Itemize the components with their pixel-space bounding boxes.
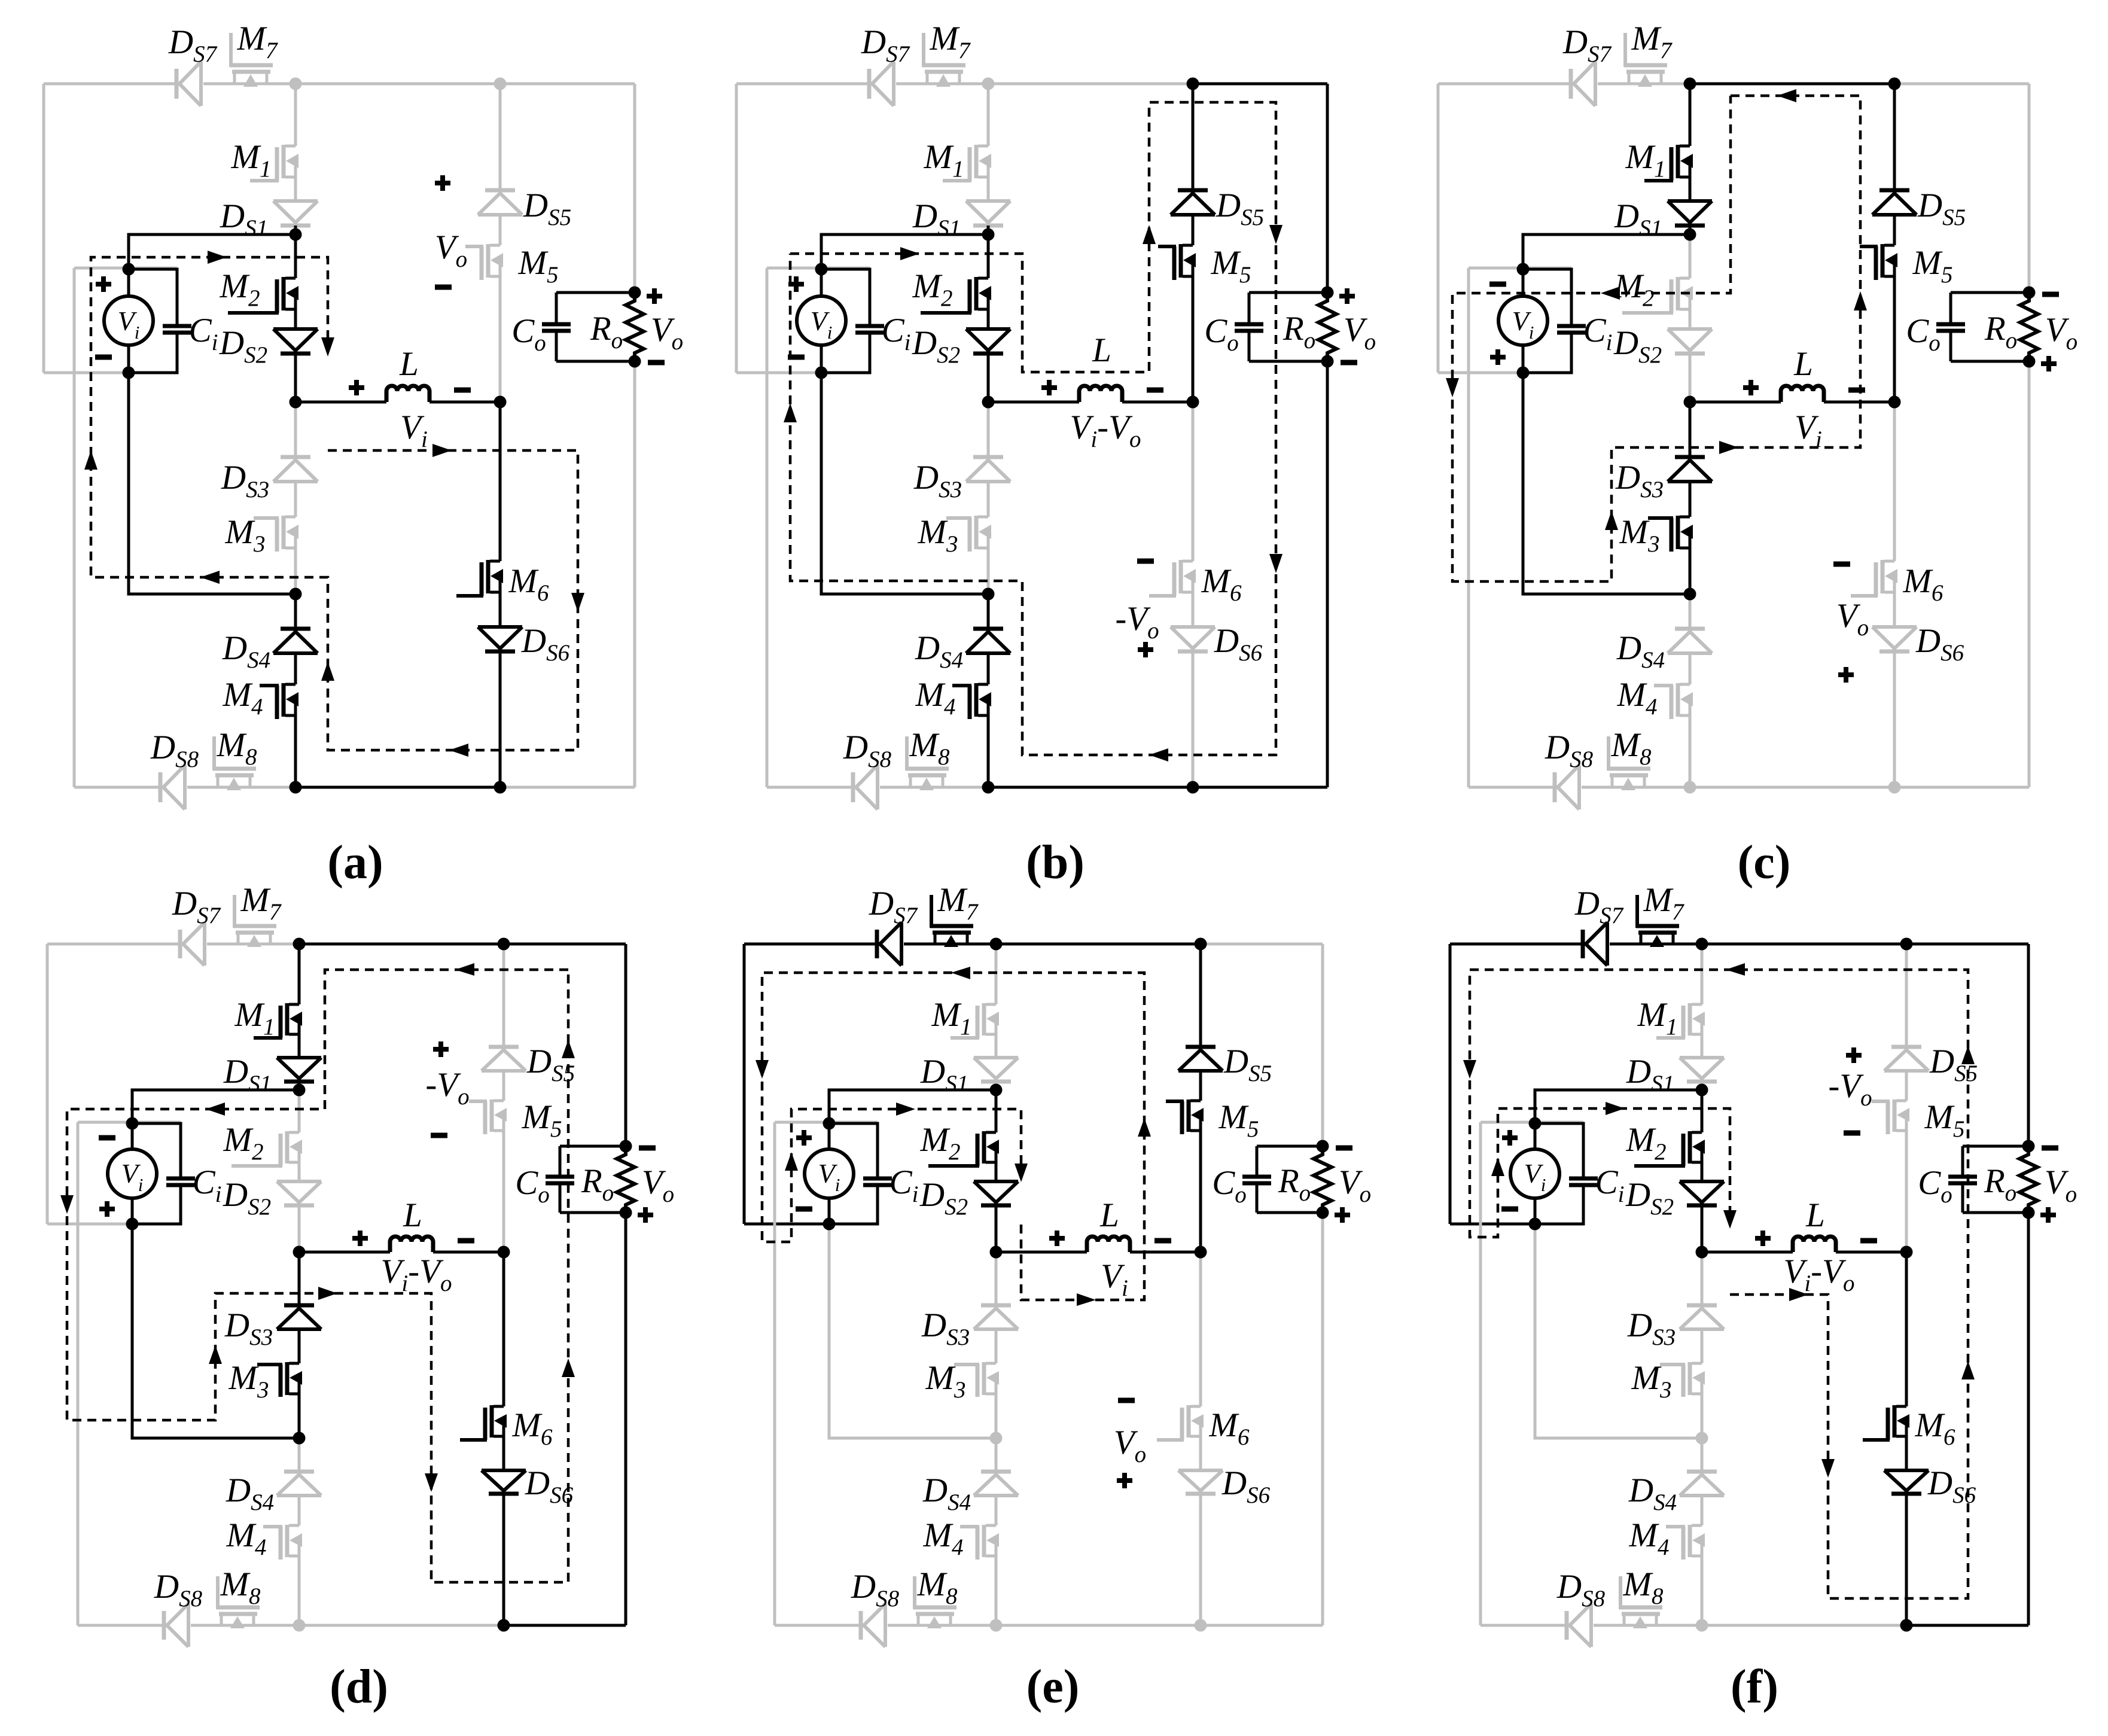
wire M5 to inductor node (c): [1893, 275, 1896, 402]
wire bottom rail left (a): [74, 786, 296, 789]
sign output bottom (b): [1341, 360, 1357, 366]
capacitor Co (e): [1242, 1146, 1271, 1213]
transistor M4 (f): [1666, 1525, 1705, 1560]
transistor M3 (d): [257, 1362, 302, 1397]
wire top rail right (f): [1906, 943, 2028, 946]
node indR (e): [1195, 1246, 1207, 1259]
label DS1 (b): [912, 197, 961, 241]
voltage source Vi (b): [797, 269, 846, 373]
wire M2 to DS2 (e): [995, 1161, 998, 1181]
wire top rail right (a): [500, 83, 635, 86]
sign Vi bottom (d): [99, 1201, 115, 1217]
transistor M4 (a): [260, 683, 298, 719]
svg-text:L: L: [403, 1196, 422, 1234]
label DS3 (a): [221, 459, 269, 502]
wire M4 to bottom rail (a): [294, 714, 297, 787]
diode DS8 (b): [853, 765, 878, 809]
label Co (e): [1212, 1164, 1247, 1208]
wire output bottom (c): [1951, 360, 2029, 363]
capacitor Co (b): [1235, 293, 1263, 361]
wire bottom rail middle (d): [299, 1624, 504, 1627]
label M4 (e): [923, 1516, 964, 1560]
transistor M8 (f): [1619, 1576, 1662, 1628]
wire chain top (f): [1701, 944, 1704, 1004]
wire top rail to DS5 (e): [1199, 944, 1202, 1047]
label DS2 (c): [1613, 324, 1662, 368]
wire DS3 to M3 (a): [294, 482, 297, 517]
wire DS2 to inductor node (e): [995, 1205, 998, 1252]
label DS4 (a): [222, 629, 270, 673]
wire bottom rail middle (e): [996, 1624, 1201, 1627]
wire top rail to DS5 (d): [502, 944, 505, 1047]
wire DS4 to M4 (d): [298, 1496, 301, 1525]
node outT (e): [1317, 1140, 1329, 1153]
label DS4 (c): [1616, 629, 1665, 673]
wire DS6 to bottom rail (a): [499, 651, 502, 787]
wire right rail lower (b): [1326, 361, 1329, 787]
wire M5 to inductor node (b): [1192, 275, 1195, 402]
diode DS6 (c): [1872, 627, 1917, 651]
node bot494 (d): [293, 1619, 306, 1632]
label M3 (a): [225, 513, 266, 557]
label branch voltage (d): [425, 1066, 469, 1110]
label inductor voltage (a): [400, 409, 428, 452]
dashed current loop (b): [784, 102, 1283, 762]
wire Vi- to node B (d): [132, 1224, 299, 1438]
transistor M8 (b): [906, 736, 949, 790]
wire top rail middle (d): [299, 943, 504, 946]
sign output bottom (d): [638, 1207, 653, 1223]
label M1 (a): [231, 138, 272, 182]
sign output top (f): [2042, 1146, 2058, 1151]
node indL (b): [982, 396, 995, 409]
label M5 (e): [1219, 1098, 1259, 1142]
capacitor Co (a): [542, 293, 571, 361]
label M6 (c): [1903, 562, 1943, 606]
resistor Ro (d): [617, 1146, 635, 1213]
label M3 (f): [1631, 1359, 1672, 1403]
wire DS1 to node A (d): [298, 1082, 301, 1090]
node top836 (d): [498, 938, 510, 951]
wire node A to M2 (f): [1701, 1090, 1704, 1132]
sign output top (c): [2042, 292, 2059, 297]
label DS2 (b): [912, 324, 960, 368]
wire DS5 to M5 (b): [1192, 215, 1195, 245]
diode DS3 (a): [273, 457, 318, 482]
diode DS8 (c): [1555, 765, 1579, 809]
wire output bottom (a): [556, 360, 635, 363]
label inductor voltage (f): [1784, 1253, 1855, 1296]
wire node A to Vi+ (f): [1535, 1090, 1702, 1123]
wire bottom rail left (f): [1481, 1624, 1702, 1627]
wire top rail middle (c): [1690, 83, 1894, 86]
wire DS4 to M4 (e): [995, 1496, 998, 1525]
label DS5 (d): [526, 1043, 575, 1086]
diode DS1 (f): [1680, 1058, 1724, 1082]
diode DS1 (e): [974, 1058, 1018, 1082]
transistor M8 (d): [217, 1576, 260, 1628]
diode DS2 (f): [1680, 1181, 1724, 1205]
inductor L (e): [996, 1236, 1201, 1252]
transistor M1 (f): [1656, 1003, 1705, 1038]
label DS1 (d): [223, 1053, 272, 1097]
diode DS6 (d): [482, 1470, 526, 1494]
diode DS8 (a): [160, 765, 185, 809]
wire inductor node to M6 (a): [499, 402, 502, 561]
diode DS7 (a): [176, 62, 201, 106]
dashed current loop (e): [756, 967, 1151, 1306]
label DS2 (e): [919, 1176, 968, 1220]
wire M5 to inductor node (a): [499, 275, 502, 402]
svg-text:(d): (d): [330, 1661, 388, 1713]
wire DS6 to bottom rail (c): [1893, 651, 1896, 787]
node top836 (b): [1187, 78, 1199, 90]
diode DS2 (d): [277, 1181, 321, 1205]
label DS2 (d): [223, 1176, 271, 1220]
node outT (a): [629, 287, 641, 299]
node 392 (c): [1684, 229, 1696, 241]
transistor M1 (b): [943, 145, 991, 181]
wire node A to Vi+ (b): [821, 234, 988, 269]
wire right rail upper (d): [625, 944, 627, 1146]
label Ro (d): [581, 1162, 614, 1206]
wire gray jog horizontal (a): [74, 267, 177, 270]
wire output top (e): [1257, 1145, 1323, 1148]
wire bottom rail middle (b): [988, 786, 1193, 789]
label M4 (b): [915, 676, 956, 720]
label M6 (f): [1915, 1406, 1955, 1450]
transistor M7 (e): [930, 895, 973, 947]
label Co (a): [511, 312, 546, 356]
transistor M2 (f): [1634, 1131, 1705, 1166]
wire M6 to DS6 (e): [1199, 1435, 1202, 1470]
svg-text:(e): (e): [1026, 1661, 1080, 1713]
sign branch minus (a): [435, 285, 452, 290]
transistor M4 (c): [1654, 683, 1693, 719]
label Ro (a): [590, 310, 623, 354]
node viP (e): [823, 1117, 836, 1130]
transistor M1 (d): [254, 1003, 302, 1038]
wire DS1 to node A (a): [294, 226, 297, 234]
wire DS4 to M4 (a): [294, 653, 297, 684]
wire Vi- to node B (c): [1523, 373, 1690, 594]
wire DS3 to M3 (e): [995, 1329, 998, 1363]
label branch voltage (c): [1836, 597, 1869, 641]
capacitor Ci (e): [829, 1123, 892, 1224]
label Vo output (c): [2045, 311, 2077, 355]
wire DS6 to bottom rail (e): [1199, 1494, 1202, 1625]
node bot836 (a): [494, 781, 507, 794]
label inductor voltage (d): [381, 1253, 452, 1296]
diode DS6 (f): [1884, 1470, 1929, 1494]
wire DS5 to M5 (d): [502, 1071, 505, 1101]
wire top rail middle (f): [1702, 943, 1906, 946]
wire right rail lower (a): [633, 361, 636, 787]
wire M6 to DS6 (a): [499, 591, 502, 627]
label Co (d): [515, 1164, 550, 1208]
wire left frame (f): [1449, 944, 1452, 1224]
wire DS2 to inductor node (c): [1689, 354, 1692, 402]
label DS8 (a): [150, 729, 199, 772]
label DS8 (b): [843, 729, 892, 772]
wire inductor node to DS3 (a): [294, 402, 297, 457]
wire bottom rail right (e): [1201, 1624, 1323, 1627]
wire M1 to DS1 (b): [987, 176, 990, 201]
wire node A to Vi+ (e): [829, 1090, 996, 1123]
wire M1 to DS1 (e): [995, 1033, 998, 1058]
node top836 (a): [494, 78, 507, 90]
wire DS6 to bottom rail (d): [502, 1494, 505, 1625]
wire top rail to DS5 (a): [499, 84, 502, 190]
sign Vi top (f): [1502, 1130, 1518, 1146]
wire bottom rail left (e): [775, 1624, 996, 1627]
sign Vi top (b): [788, 276, 804, 292]
label M1 (c): [1625, 138, 1666, 182]
wire top rail middle (b): [988, 83, 1193, 86]
label DS5 (c): [1917, 187, 1966, 230]
wire DS3 to M3 (c): [1689, 482, 1692, 517]
diode DS7 (d): [180, 922, 205, 966]
node top494 (c): [1684, 78, 1696, 90]
label Vo output (e): [1339, 1164, 1371, 1207]
transistor M6 (e): [1157, 1405, 1204, 1440]
label DS3 (f): [1627, 1306, 1676, 1350]
transistor M5 (a): [465, 244, 503, 280]
wire Vi- to node B (f): [1535, 1224, 1702, 1438]
wire M4 to bottom rail (e): [995, 1555, 998, 1625]
wire left frame (d): [46, 944, 49, 1224]
wire DS3 to M3 (f): [1701, 1329, 1704, 1363]
sign Vi bottom (c): [1490, 349, 1506, 365]
diode DS1 (a): [273, 201, 318, 226]
label DS7 (d): [172, 885, 221, 928]
sign inductor plus (f): [1755, 1231, 1771, 1246]
transistor M8 (e): [913, 1576, 956, 1628]
node outT (c): [2023, 287, 2036, 299]
sign branch plus (c): [1838, 667, 1854, 683]
node bot836 (e): [1195, 1619, 1207, 1632]
node top836 (c): [1888, 78, 1901, 90]
node bot494 (f): [1696, 1619, 1708, 1632]
label branch voltage (b): [1115, 600, 1159, 644]
diode DS3 (b): [966, 457, 1010, 482]
node outB (a): [629, 355, 641, 368]
sign branch minus (b): [1137, 559, 1154, 564]
svg-text:L: L: [399, 345, 419, 383]
label M6 (b): [1201, 562, 1242, 606]
wire inductor node to M6 (c): [1893, 402, 1896, 561]
sign branch minus (d): [431, 1133, 447, 1138]
wire top rail left segment (b): [736, 83, 988, 86]
diode DS7 (b): [869, 62, 894, 106]
capacitor Ci (d): [132, 1123, 195, 1224]
wire M6 to DS6 (f): [1905, 1435, 1908, 1470]
wire right rail upper (a): [633, 84, 636, 293]
wire M6 to DS6 (b): [1192, 591, 1195, 627]
wire M2 to DS2 (a): [294, 308, 297, 329]
label L (d): [403, 1196, 422, 1234]
wire frame to Vi- (b): [736, 371, 821, 374]
label M1 (b): [924, 138, 964, 182]
capacitor Ci (a): [129, 269, 191, 373]
node viP (d): [126, 1117, 139, 1130]
wire right rail lower (e): [1321, 1213, 1324, 1625]
label DS3 (b): [913, 459, 962, 502]
wire M4 to bottom rail (c): [1689, 714, 1692, 787]
sign branch plus (a): [435, 175, 450, 191]
sign output bottom (c): [2041, 356, 2057, 371]
label M5 (d): [522, 1098, 562, 1142]
wire DS1 to node A (b): [987, 226, 990, 234]
capacitor Co (f): [1948, 1146, 1977, 1213]
label DS6 (a): [521, 622, 570, 666]
wire frame to Vi- (f): [1450, 1223, 1535, 1226]
transistor M2 (c): [1622, 277, 1693, 313]
wire DS2 to inductor node (a): [294, 354, 297, 402]
inductor L (d): [299, 1236, 504, 1252]
label Vo output (d): [642, 1164, 674, 1207]
wire gray jog horizontal (d): [78, 1121, 181, 1124]
wire frame to Vi- (c): [1438, 371, 1523, 374]
wire node B to DS4 (a): [294, 594, 297, 629]
wire output bottom (f): [1963, 1211, 2028, 1214]
sign inductor minus (c): [1848, 388, 1865, 393]
wire right rail upper (c): [2028, 84, 2031, 293]
label DS6 (d): [525, 1464, 574, 1508]
label M4 (c): [1617, 676, 1658, 720]
label DS7 (c): [1562, 23, 1612, 67]
transistor M5 (d): [469, 1100, 507, 1134]
label DS5 (f): [1929, 1043, 1978, 1086]
sign Vi top (c): [1489, 282, 1506, 287]
panel label (e): [1026, 1661, 1080, 1713]
label M2 (e): [920, 1121, 961, 1165]
svg-text:L: L: [1793, 345, 1813, 383]
node 993 (c): [1684, 588, 1696, 601]
label M7 (b): [930, 20, 971, 63]
node 392 (d): [293, 1084, 306, 1097]
wire left frame (c): [1437, 84, 1440, 373]
wire M3 to node B (f): [1701, 1393, 1704, 1438]
node top494 (b): [982, 78, 995, 90]
wire top rail left segment (a): [44, 83, 296, 86]
label M6 (e): [1209, 1406, 1250, 1450]
wire M3 to node B (e): [995, 1393, 998, 1438]
transistor M5 (e): [1166, 1100, 1204, 1134]
node indR (c): [1888, 396, 1901, 409]
label M4 (d): [226, 1516, 267, 1560]
wire M6 to DS6 (c): [1893, 591, 1896, 627]
dashed current loop (d): [60, 963, 575, 1582]
wire inductor node to DS3 (e): [995, 1252, 998, 1305]
wire gray jog vertical (e): [773, 1122, 776, 1625]
label Ci (e): [889, 1164, 919, 1207]
node 993 (d): [293, 1432, 306, 1445]
wire DS5 to M5 (a): [499, 215, 502, 245]
wire inductor node to M6 (f): [1905, 1252, 1908, 1406]
wire output bottom (b): [1249, 360, 1327, 363]
transistor M8 (a): [213, 736, 256, 790]
sign inductor plus (a): [349, 380, 364, 395]
inductor L (f): [1702, 1236, 1906, 1252]
wire Vi- to node B (a): [129, 373, 296, 594]
wire M1 to DS1 (a): [294, 176, 297, 201]
label M5 (f): [1924, 1098, 1965, 1142]
wire M2 to DS2 (c): [1689, 308, 1692, 329]
sign branch plus (b): [1138, 642, 1153, 657]
node 392 (b): [982, 229, 995, 241]
wire right rail upper (b): [1326, 84, 1329, 293]
wire M6 to DS6 (d): [502, 1435, 505, 1470]
label M4 (f): [1629, 1516, 1670, 1560]
label M1 (d): [234, 996, 275, 1040]
diode DS4 (e): [974, 1472, 1018, 1496]
wire node A to M2 (b): [987, 234, 990, 278]
wire node B to DS4 (d): [298, 1438, 301, 1472]
label Ci (a): [189, 312, 218, 355]
label Vo output (b): [1344, 311, 1376, 355]
wire inductor node to DS3 (b): [987, 402, 990, 457]
label DS5 (b): [1216, 187, 1264, 230]
label inductor voltage (b): [1070, 409, 1141, 452]
label M3 (d): [229, 1359, 269, 1403]
panel label (d): [330, 1661, 388, 1713]
diode DS5 (f): [1884, 1047, 1929, 1071]
label DS6 (b): [1214, 622, 1263, 666]
resistor Ro (a): [626, 293, 644, 361]
capacitor Ci (b): [821, 269, 884, 373]
panel label (a): [327, 836, 383, 889]
sign inductor plus (b): [1041, 380, 1057, 395]
wire node B to DS4 (b): [987, 594, 990, 629]
wire DS2 to inductor node (f): [1701, 1205, 1704, 1252]
transistor M3 (f): [1660, 1362, 1705, 1397]
sign inductor minus (b): [1147, 388, 1163, 393]
sign inductor plus (e): [1049, 1231, 1065, 1246]
wire node A to Vi+ (d): [132, 1090, 299, 1123]
wire M1 to DS1 (c): [1689, 176, 1692, 201]
wire bottom rail right (f): [1906, 1624, 2028, 1627]
transistor M5 (b): [1158, 244, 1196, 280]
transistor M7 (f): [1636, 895, 1679, 947]
wire top rail right (c): [1894, 83, 2029, 86]
wire node A to M2 (e): [995, 1090, 998, 1132]
node indR (a): [494, 396, 507, 409]
diode DS5 (b): [1171, 190, 1215, 215]
sign Vi bottom (e): [796, 1207, 812, 1212]
wire left frame (a): [42, 84, 45, 373]
diode DS7 (e): [877, 922, 901, 966]
wire inductor node to DS3 (d): [298, 1252, 301, 1305]
wire top rail left segment (f): [1450, 943, 1702, 946]
wire M5 to inductor node (d): [502, 1129, 505, 1252]
label M1 (f): [1637, 996, 1678, 1040]
label Ro (b): [1283, 310, 1315, 354]
diode DS7 (c): [1571, 62, 1595, 106]
sign Vi top (d): [99, 1135, 115, 1141]
wire M4 to bottom rail (f): [1701, 1555, 1704, 1625]
node 993 (a): [290, 588, 302, 601]
diode DS1 (d): [277, 1058, 321, 1082]
dashed current loop (f): [1463, 963, 1975, 1598]
transistor M7 (c): [1624, 33, 1667, 87]
transistor M1 (e): [951, 1003, 999, 1038]
label DS7 (e): [869, 885, 918, 928]
diode DS2 (c): [1668, 329, 1712, 354]
sign branch plus (e): [1117, 1473, 1132, 1488]
transistor M3 (b): [946, 516, 991, 552]
sign output top (a): [647, 288, 662, 304]
